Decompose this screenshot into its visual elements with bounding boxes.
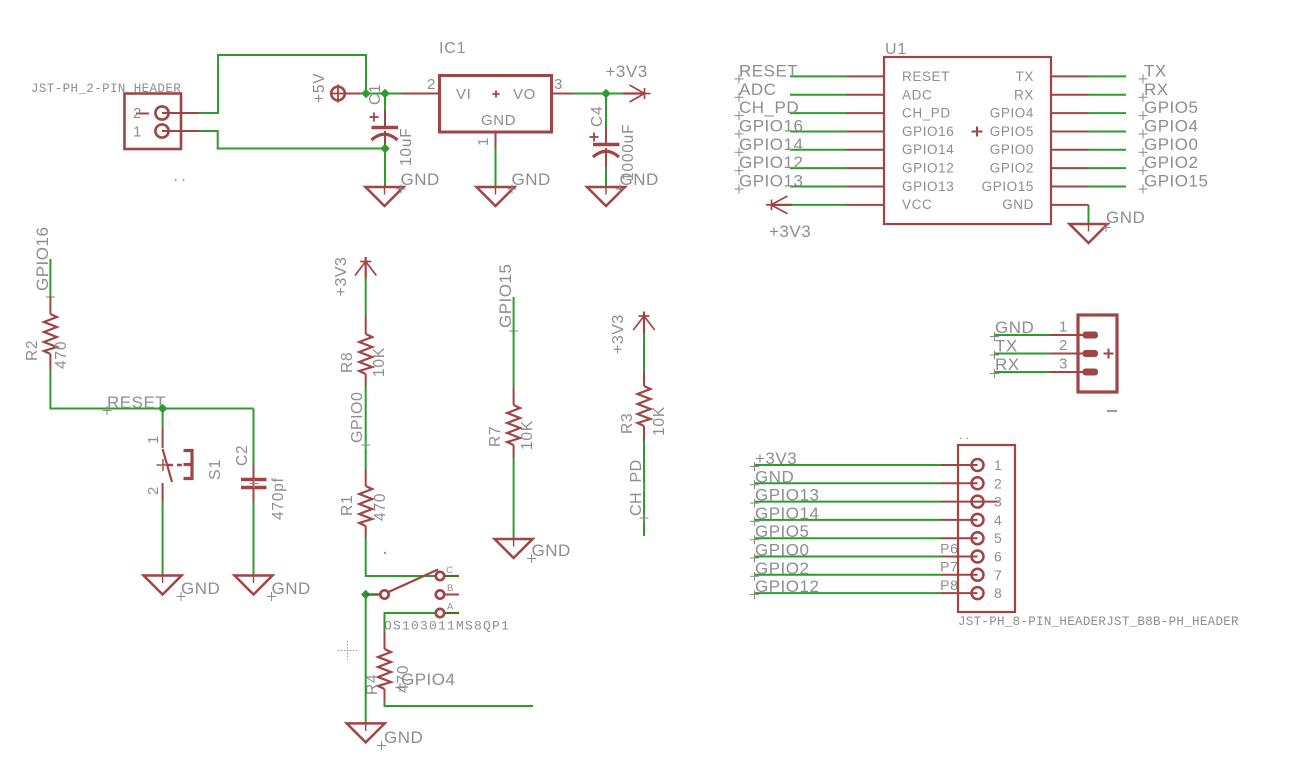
J2 net labels [995,318,1034,374]
svg-text:RX: RX [1144,80,1169,99]
svg-text:GND: GND [512,170,551,189]
svg-text:RX: RX [1014,87,1034,102]
svg-text:S1: S1 [207,459,224,480]
wire S1 pin2 to GND [162,501,164,576]
svg-text:ADC: ADC [902,87,932,102]
resistor R1 470 [339,469,389,538]
supply symbol +3V3 up arrow (R8) [355,257,376,279]
svg-text:RESET: RESET [902,69,950,84]
ground GND under C2 [235,575,311,602]
svg-text:TX: TX [1144,61,1167,80]
svg-text:GPIO16: GPIO16 [33,227,52,291]
wire IC1 VO to +3V3 node [573,93,606,95]
pin 1 of J1 [133,124,199,141]
svg-text:C2: C2 [234,445,251,466]
wire C1 node to IC1 VI [385,93,402,95]
net label GPIO16 [33,227,55,302]
J2 wires [995,335,1050,372]
net label GPIO0 [349,392,370,450]
svg-text:GND: GND [481,112,516,129]
svg-text:GPIO0: GPIO0 [990,142,1034,157]
svg-text:GPIO12: GPIO12 [755,577,819,596]
svg-text:10K: 10K [651,406,668,436]
svg-text:P8: P8 [940,577,958,593]
svg-text:GPIO12: GPIO12 [902,161,954,176]
ground GND under C1 [366,170,440,206]
U1 right label crosses [1139,74,1148,193]
U1 right pin stubs [1051,76,1089,204]
svg-text:P6: P6 [940,540,958,556]
capacitor C4 [589,94,637,188]
svg-text:CH_PD: CH_PD [739,98,799,117]
wire junction to pivot (overlap) [366,593,380,595]
resistor R2 470 [24,297,70,369]
wire J1 pin2 to +5V node [199,55,366,113]
J2 label crosses [990,332,999,378]
svg-text:GND: GND [181,579,220,598]
svg-text:+3V3: +3V3 [606,62,648,81]
svg-text:U1: U1 [885,41,907,58]
svg-text:R1: R1 [339,495,356,516]
svg-text:GND: GND [1106,208,1145,227]
svg-text:CH_PD: CH_PD [902,106,951,121]
node junction RESET/S1 [158,404,168,414]
tiny mark above switch [384,552,386,554]
J3 net labels [755,449,819,596]
U1 left pin stubs [847,76,885,204]
svg-text:GPIO15: GPIO15 [982,179,1034,194]
svg-text:GPIO16: GPIO16 [902,124,954,139]
svg-text:470: 470 [372,493,389,521]
svg-text:470: 470 [53,341,70,369]
svg-text:10K: 10K [519,420,536,450]
svg-text:A: A [447,602,454,613]
wire R4 bottom to GPIO4 stub [385,701,534,706]
svg-text:TX: TX [995,337,1018,356]
svg-text:+3V3: +3V3 [755,449,797,468]
svg-text:GPIO0: GPIO0 [755,541,809,560]
svg-text:C: C [446,565,453,576]
pin stub IC1 pin2 [402,93,440,95]
connector J2 3-pin header [1078,315,1117,411]
svg-text:GPIO5: GPIO5 [1144,98,1198,117]
ground GND under U1 [1070,208,1146,243]
net label GPIO4 [396,670,456,692]
svg-text:GPIO14: GPIO14 [739,135,803,154]
wire +3V3 to R3 [643,333,645,371]
U1 left net labels [739,61,803,190]
node junction switch common [361,590,371,600]
svg-text:P7: P7 [940,559,958,575]
wire junction to S1 pin1 [162,409,164,429]
svg-text:RESET: RESET [739,61,798,80]
svg-text:GPIO2: GPIO2 [990,161,1034,176]
svg-text:GPIO2: GPIO2 [755,559,809,578]
wire switch common junction to GND [365,595,367,724]
J3 wires [754,465,941,593]
ground GND under IC1 [477,170,551,206]
wire +5V node to C1 node [366,93,385,95]
ground GND under C4 [587,170,659,206]
wire RESET rail to C2 [163,408,254,410]
svg-text:GPIO0: GPIO0 [1144,135,1198,154]
svg-text:JST-PH_8-PIN_HEADERJST_B8B-PH_: JST-PH_8-PIN_HEADERJST_B8B-PH_HEADER [958,615,1239,629]
svg-text:7: 7 [994,567,1002,583]
svg-text:IC1: IC1 [439,40,466,57]
net label RESET [103,393,167,415]
wire C1 bottom to GND [384,149,386,188]
J3 pin numbers [994,457,1002,601]
svg-text:1: 1 [145,435,162,444]
J2 pin lines [1050,335,1086,372]
capacitor C1 [367,84,415,166]
svg-text:TX: TX [1016,69,1034,84]
svg-text:R7: R7 [487,426,504,447]
svg-text:GPIO13: GPIO13 [755,486,819,505]
U1 right pin names [982,69,1034,212]
svg-text:GND: GND [272,579,311,598]
svg-text:2: 2 [145,486,162,495]
svg-text:GPIO15: GPIO15 [1144,172,1208,191]
svg-text:C1: C1 [367,84,384,105]
svg-text:OS103011MS8QP1: OS103011MS8QP1 [384,619,510,634]
svg-text:+3V3: +3V3 [610,314,627,354]
U1 left pin names [902,69,954,212]
switch S1 [145,428,224,501]
svg-text:C4: C4 [589,106,606,127]
wire U1 GND pin down [1088,205,1090,224]
pin stub IC1 pin1 GND [495,132,497,148]
svg-text:..: .. [172,171,188,185]
svg-text:5: 5 [994,530,1002,546]
origin crosshair of switch [338,641,357,660]
net label GPIO15 [496,264,518,336]
pin stub IC1 pin3 [552,93,574,95]
J3 pin circles [972,459,984,599]
voltage regulator IC1 [427,40,563,146]
svg-text:GPIO14: GPIO14 [755,504,819,523]
svg-text:VO: VO [513,86,536,103]
wire GPIO16 stub to R2 [49,259,51,297]
svg-text:GND: GND [755,467,794,486]
svg-text:GPIO16: GPIO16 [739,116,803,135]
svg-text:GND: GND [620,170,659,189]
svg-text:GPIO15: GPIO15 [496,264,515,328]
svg-text:B: B [447,583,453,594]
svg-text:RX: RX [995,355,1020,374]
U1 left label crosses [735,74,744,193]
wire R3 bottom CH_PD stub [643,441,645,536]
connector J3 8-pin header [958,432,1239,629]
svg-text:6: 6 [994,549,1002,565]
svg-text:VI: VI [456,86,471,103]
node junction +5V / C1 top [361,89,371,99]
wire R8 to R1 (net GPIO0) [365,386,367,469]
J3 label crosses [750,462,759,599]
svg-text:R3: R3 [619,413,636,434]
svg-text:3: 3 [1059,356,1068,373]
svg-text:10uF: 10uF [398,127,415,166]
svg-text:GND: GND [1002,197,1034,212]
svg-text:GPIO13: GPIO13 [902,179,954,194]
svg-text:10K: 10K [371,347,388,377]
wire switch contact A to R4 [385,613,436,632]
svg-text:470pf: 470pf [270,477,287,520]
svg-text:GPIO0: GPIO0 [349,392,366,443]
supply symbol +3V3 right arrow [623,85,651,102]
svg-text:R2: R2 [24,340,41,361]
switch SW1 OS103011MS8QP1 [380,565,510,634]
wire R7 bottom to GND [513,457,515,539]
svg-text:GPIO4: GPIO4 [990,106,1034,121]
wire R2 bottom to RESET rail [50,369,162,409]
resistor R8 10K [339,316,388,386]
U1 right net labels [1144,61,1208,190]
svg-text:1: 1 [133,124,142,141]
svg-text:+3V3: +3V3 [769,222,811,241]
wire RESET rail down to C2 [253,409,255,466]
svg-text:GND: GND [384,728,423,747]
wire GPIO15 stub to R7 [513,297,515,388]
supply symbol +5V [311,73,365,103]
resistor R3 10K [619,371,668,441]
svg-text:2: 2 [133,105,142,122]
svg-text:3: 3 [554,76,563,93]
wire IC1 GND to ground [495,148,497,187]
svg-text:ADC: ADC [739,80,776,99]
svg-text:GND: GND [401,170,440,189]
resistor R7 10K [487,388,536,457]
supply symbol +3V3 left arrow (VCC) [766,196,792,214]
svg-text:GPIO14: GPIO14 [902,142,954,157]
J3 pin names P6 P7 P8 [940,540,958,593]
svg-text:R8: R8 [339,352,356,373]
IC U1 [884,41,1051,224]
svg-text:1: 1 [1059,319,1068,336]
J2 pin numbers [1059,319,1068,373]
pin 2 of J1 [133,105,199,122]
wire C2 bottom to GND [253,501,255,576]
svg-text:GPIO2: GPIO2 [1144,153,1198,172]
capacitor C2 470pf [234,445,287,520]
svg-text:2: 2 [994,475,1002,491]
svg-text:GND: GND [995,318,1034,337]
svg-text:2: 2 [1059,337,1068,354]
resistor R4 470 [364,632,412,701]
svg-text:3: 3 [994,494,1002,510]
J3 pin lines [941,465,999,593]
svg-text:..: .. [958,432,971,443]
wire node to +3V3 arrow [606,93,623,95]
wire +3V3 to R8 [365,279,367,317]
wire J1 pin1 to GND rail [199,131,385,149]
net label CH_PD [628,459,649,522]
ground GND under S1 [144,575,221,602]
svg-text:2: 2 [427,76,436,93]
svg-text:CH_PD: CH_PD [628,459,645,516]
node junction C1 top [380,89,390,99]
U1 left wires [790,76,847,204]
svg-text:VCC: VCC [902,197,932,212]
node junction C4 top [601,89,611,99]
connector J1 JST-PH_2-PIN_HEADER [31,82,188,185]
svg-text:1: 1 [475,137,492,146]
svg-text:GPIO5: GPIO5 [755,522,809,541]
svg-text:GPIO4: GPIO4 [401,670,455,689]
svg-text:GPIO13: GPIO13 [739,172,803,191]
svg-text:1: 1 [994,457,1002,473]
svg-text:GPIO12: GPIO12 [739,153,803,172]
svg-text:+3V3: +3V3 [333,257,350,297]
ground GND under R7 [495,538,571,563]
U1 right wires [1089,76,1127,186]
ground GND bottom middle [347,722,424,750]
svg-text:4: 4 [994,512,1002,528]
svg-text:+5V: +5V [311,73,328,103]
svg-text:GPIO4: GPIO4 [1144,116,1198,135]
svg-text:8: 8 [994,585,1002,601]
supply symbol +3V3 up arrow (R3) [633,312,654,334]
node junction C1 bottom [380,144,390,154]
wire R1 bottom to switch contact C [366,538,436,576]
svg-text:GND: GND [532,541,571,560]
svg-text:RESET: RESET [107,393,166,412]
svg-text:GPIO5: GPIO5 [990,124,1034,139]
